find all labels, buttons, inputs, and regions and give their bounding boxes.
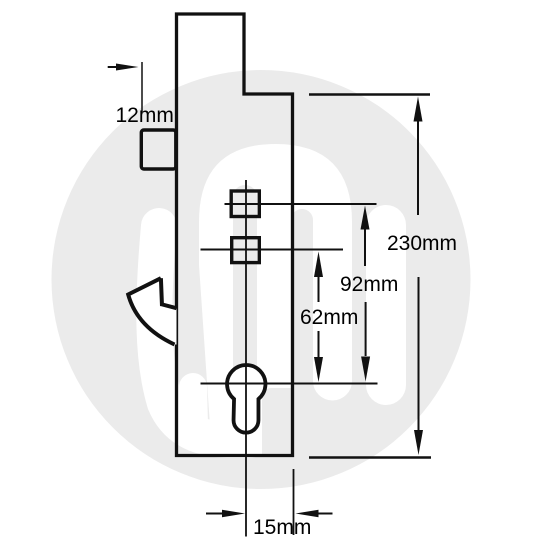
- 230mm dimension line top: [414, 97, 423, 216]
- watermark gray center capsule: [233, 197, 257, 393]
- top extension line for 230mm: [309, 93, 430, 95]
- svg-text:12mm: 12mm: [116, 104, 174, 127]
- watermark gray lower-right patch: [262, 388, 313, 457]
- bottom extension line for 230mm: [309, 456, 431, 459]
- centerline: [245, 180, 247, 537]
- 12mm extension line: [141, 62, 143, 112]
- horizontal line through square 2: [201, 249, 344, 251]
- watermark white i stem: [366, 225, 406, 385]
- svg-text:230mm: 230mm: [387, 232, 457, 255]
- 62mm dimension line: [314, 252, 323, 383]
- square follower 2: [232, 238, 260, 263]
- 92mm dimension line: [361, 206, 371, 382]
- euro cylinder keyhole: [227, 365, 265, 433]
- hook bolt: [128, 278, 176, 344]
- watermark logo disc: [52, 70, 471, 489]
- 230mm dimension line bottom: [414, 277, 423, 455]
- lock plate outline: [177, 14, 293, 456]
- horizontal line through keyhole: [201, 383, 378, 385]
- 15mm extension line right: [293, 469, 295, 535]
- watermark white tunnel letterform: [199, 144, 352, 455]
- 15mm arrow left: [206, 510, 245, 517]
- watermark white u letterform: [154, 226, 250, 440]
- svg-text:15mm: 15mm: [253, 516, 311, 539]
- watermark white gap filler: [193, 387, 194, 424]
- horizontal line through square 1: [225, 203, 377, 205]
- svg-text:92mm: 92mm: [340, 273, 398, 296]
- svg-text:62mm: 62mm: [300, 306, 358, 329]
- 12mm arrow: [108, 64, 139, 71]
- watermark gray right capsule: [291, 220, 313, 450]
- 12mm tab: [141, 130, 176, 169]
- square follower 1: [231, 191, 259, 217]
- 15mm arrow right: [296, 510, 333, 517]
